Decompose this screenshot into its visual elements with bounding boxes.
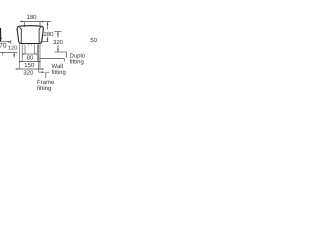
320b arrows bbox=[17, 68, 20, 70]
texts bbox=[0, 14, 98, 76]
svg-text:70: 70 bbox=[0, 43, 7, 50]
long vertical to elbow bbox=[39, 44, 42, 72]
duplo leader bbox=[66, 52, 68, 58]
dim 320 stem lower bbox=[57, 45, 59, 52]
left up arrow bbox=[13, 53, 15, 56]
dim 280 stem upper bbox=[47, 22, 49, 30]
80 arrows bbox=[22, 53, 25, 55]
svg-text:fitting: fitting bbox=[37, 85, 51, 92]
svg-text:280: 280 bbox=[43, 31, 54, 38]
figure outline bbox=[17, 26, 43, 44]
wall fitting leader bbox=[39, 59, 64, 62]
280 arrow down bbox=[47, 39, 49, 42]
left tick bbox=[10, 40, 12, 44]
left cut figure edge bbox=[0, 28, 2, 41]
left dim line 2 bbox=[0, 52, 17, 54]
dim 320 top tick bbox=[54, 31, 61, 33]
left dim line 1 bbox=[0, 41, 11, 43]
dim 320b line bbox=[16, 68, 44, 70]
left arrow bbox=[8, 41, 11, 43]
dim 280 stem lower bbox=[47, 37, 49, 42]
dim 180 ext ticks bbox=[24, 22, 40, 28]
svg-text:Wall: Wall bbox=[52, 63, 63, 70]
arrowheads 180 left bbox=[21, 21, 24, 23]
svg-text:80: 80 bbox=[27, 54, 34, 61]
figure inner wall left bbox=[19, 27, 21, 43]
figure inner wall right bbox=[39, 27, 41, 43]
arrowheads 180 right bbox=[40, 21, 43, 23]
svg-text:150: 150 bbox=[24, 62, 35, 69]
drain marks bbox=[29, 44, 32, 46]
dim 150 line bbox=[19, 61, 41, 63]
320 arrow down bbox=[57, 49, 59, 52]
svg-text:Frame: Frame bbox=[37, 79, 55, 86]
280 arrow up bbox=[47, 22, 49, 25]
svg-text:Duplo: Duplo bbox=[70, 52, 86, 59]
dim 280 bottom ref line bbox=[41, 41, 49, 43]
left small tick bbox=[2, 53, 4, 56]
wall arrow bbox=[42, 71, 45, 73]
dim 320 bottom line bbox=[55, 51, 67, 53]
svg-text:120: 120 bbox=[8, 46, 17, 52]
svg-text:fitting: fitting bbox=[52, 69, 66, 76]
dim 180 line bbox=[20, 21, 51, 23]
svg-text:320: 320 bbox=[53, 39, 64, 46]
svg-text:fitting: fitting bbox=[70, 58, 84, 65]
frame fitting leader bbox=[46, 72, 50, 78]
dim 320 stem upper bbox=[57, 32, 59, 38]
150 arrows bbox=[20, 61, 23, 63]
left edge mark bbox=[0, 37, 2, 39]
ext lines below figure bbox=[20, 44, 40, 69]
dim 80 line bbox=[22, 53, 37, 55]
svg-text:50: 50 bbox=[90, 37, 97, 44]
left stem bbox=[13, 53, 15, 58]
svg-text:180: 180 bbox=[26, 14, 37, 21]
320 arrow up bbox=[57, 32, 59, 35]
svg-text:320: 320 bbox=[23, 69, 34, 76]
